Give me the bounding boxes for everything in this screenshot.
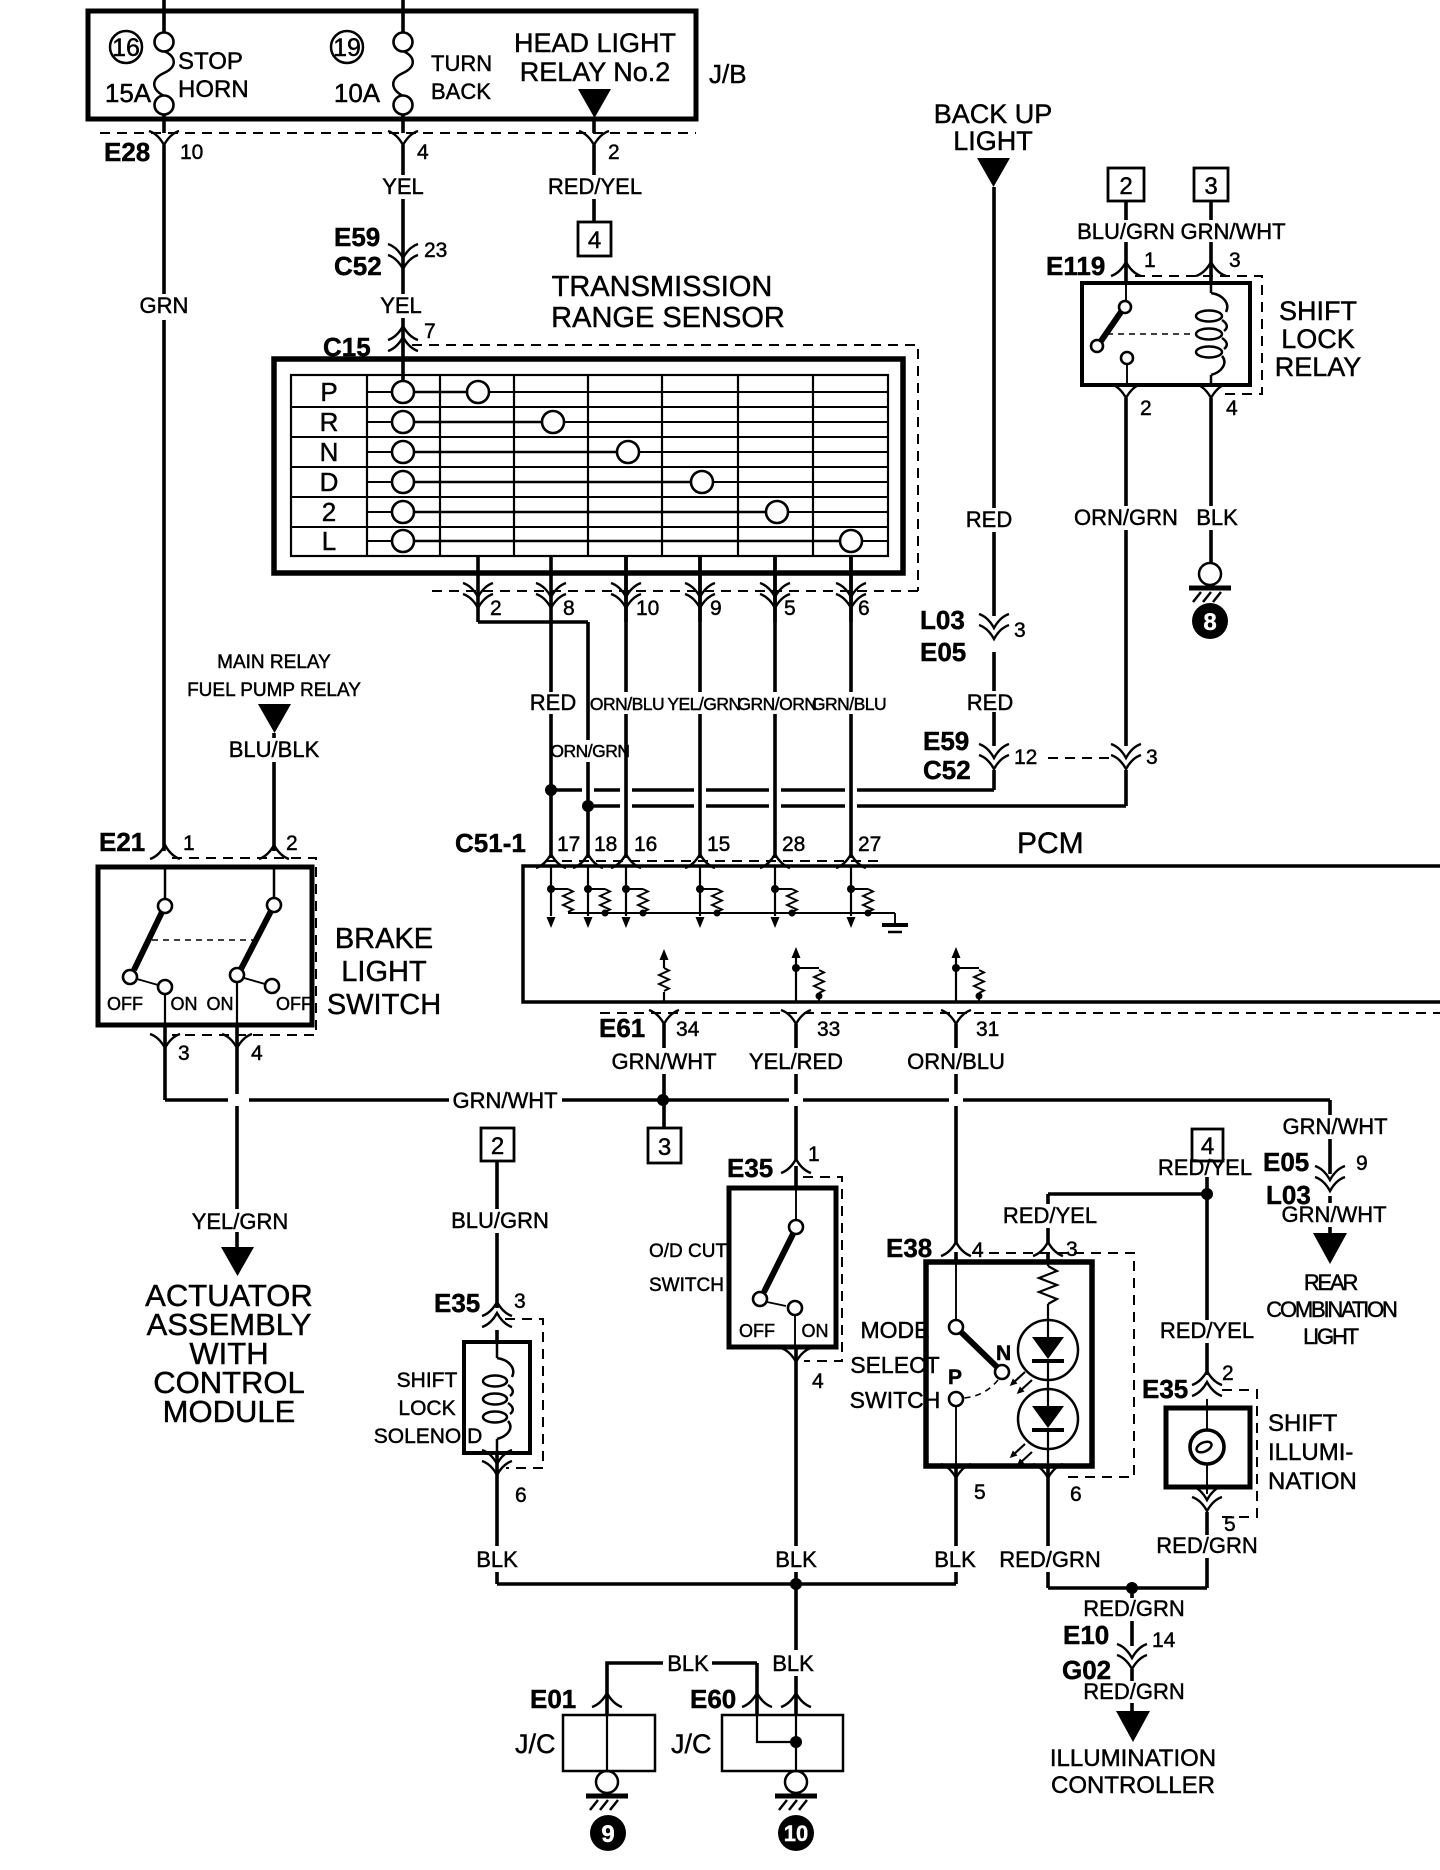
svg-text:1: 1 (183, 832, 195, 855)
svg-text:34: 34 (676, 1018, 700, 1041)
wire BLK from solenoid pin 6 to ground bus (476, 1453, 518, 1584)
ground 10 (775, 1771, 817, 1851)
brake switch pole 1 (stop side) (107, 867, 198, 1025)
svg-text:LIGHT: LIGHT (341, 956, 427, 988)
svg-text:14: 14 (1152, 1629, 1176, 1652)
connector E35 pin 5 (shift illumination) (1192, 1486, 1236, 1536)
wire GRN from E28 pin 10 down to E21 pin 1 (140, 145, 189, 851)
wire RED from back up light to rail (966, 187, 1013, 790)
svg-text:OFF: OFF (276, 994, 312, 1014)
svg-text:2: 2 (1140, 397, 1152, 420)
svg-text:P: P (320, 377, 337, 407)
svg-text:RED/GRN: RED/GRN (999, 1547, 1100, 1572)
svg-text:ON: ON (171, 994, 198, 1014)
svg-text:15: 15 (707, 833, 730, 856)
junction node GRN/WHT bus to 3-box (657, 1094, 669, 1106)
sensor 2 row contacts (392, 501, 788, 523)
svg-text:GRN/WHT: GRN/WHT (611, 1049, 716, 1074)
O/D switch dashed boundary (803, 1177, 842, 1361)
svg-text:RED/YEL: RED/YEL (1158, 1155, 1252, 1180)
svg-text:C52: C52 (334, 251, 382, 281)
svg-text:8: 8 (563, 597, 575, 620)
svg-text:BLU/BLK: BLU/BLK (229, 737, 320, 762)
fuse 16 15A STOP HORN (105, 0, 249, 133)
wire BLK from E38 pin 5 to ground bus (934, 1466, 976, 1584)
svg-text:ON: ON (802, 1321, 829, 1341)
wire BLU/GRN from 2-box to relay pin 1 (1077, 201, 1175, 283)
svg-text:J/B: J/B (709, 59, 747, 89)
svg-text:G02: G02 (1062, 1655, 1111, 1685)
svg-text:3: 3 (514, 1290, 526, 1313)
wire BLU/BLK from relay feed to E21 pin 2 (229, 733, 320, 851)
illumination dashed boundary (1215, 1390, 1257, 1517)
connector E59/C52 pin 3 (orn/grn wire) (1111, 744, 1158, 769)
sensor output pin 8 (536, 556, 575, 622)
svg-text:E35: E35 (1142, 1374, 1188, 1404)
svg-text:C52: C52 (923, 755, 971, 785)
rear combination light (1266, 1233, 1397, 1349)
C51-1 pin 17 (536, 833, 580, 868)
E21 pin 3 (150, 1034, 190, 1065)
svg-text:BLU/GRN: BLU/GRN (1077, 219, 1175, 244)
wire RED sensor pin2 to PCM 17 (478, 622, 576, 858)
svg-text:P: P (948, 1366, 962, 1389)
connector C15 pin 7 (323, 320, 436, 362)
mode select switch box (926, 1262, 1092, 1466)
svg-text:E01: E01 (530, 1684, 576, 1714)
svg-text:SOLENOID: SOLENOID (374, 1425, 483, 1448)
branch wire to E38 pin 3 (1048, 1188, 1213, 1200)
dashed link between E59/C52 pins 12 and 3 (1048, 757, 1114, 759)
svg-text:HORN: HORN (178, 76, 249, 103)
svg-text:4: 4 (1226, 397, 1238, 420)
wire RED/GRN to illumination controller (1083, 1588, 1184, 1711)
link wire BLK to E01 (607, 1651, 757, 1715)
destination box 4 (to shift illumination feed) (578, 222, 611, 256)
svg-text:RED/YEL: RED/YEL (1003, 1203, 1097, 1228)
wire YEL/RED from E61 pin 33 to O/D cut switch (749, 1024, 843, 1188)
svg-text:1: 1 (1144, 249, 1156, 272)
sensor row divider lines (291, 407, 888, 527)
svg-text:3: 3 (1066, 1238, 1078, 1261)
E21 pin 4 (222, 1034, 263, 1065)
svg-text:L03: L03 (1266, 1180, 1311, 1210)
svg-text:3: 3 (1229, 249, 1241, 272)
svg-text:3: 3 (1146, 746, 1158, 769)
sensor output pin 5 (760, 556, 796, 622)
sensor column divider lines (367, 375, 813, 556)
connector C51-1 label (455, 828, 526, 858)
C15 dashed connector boundary around sensor (412, 345, 918, 591)
svg-text:E28: E28 (104, 137, 150, 167)
svg-text:3: 3 (658, 1134, 671, 1161)
svg-text:E38: E38 (886, 1233, 932, 1263)
svg-text:3: 3 (178, 1042, 190, 1065)
svg-text:E35: E35 (434, 1288, 480, 1318)
joint connector E60 box (671, 1715, 843, 1771)
svg-text:E60: E60 (690, 1684, 736, 1714)
svg-text:LOCK: LOCK (398, 1397, 455, 1420)
connector E05/L03 pin 9 (1263, 1147, 1368, 1210)
connector L03/E05 pin 3 (920, 605, 1026, 667)
E21 pin 1 (150, 832, 195, 859)
svg-text:27: 27 (858, 833, 881, 856)
shift illumination lamp (1190, 1399, 1224, 1494)
svg-text:2: 2 (286, 832, 298, 855)
wire GRN/WHT from 3-box to relay pin 3 (1180, 201, 1285, 283)
svg-text:ORN/BLU: ORN/BLU (590, 694, 664, 714)
O/D cut switch labels (649, 1241, 728, 1296)
mode select LED 1 (1010, 1320, 1078, 1406)
wire GRN/WHT from E61 pin 34 to bus (611, 1024, 716, 1128)
svg-text:RED: RED (966, 507, 1012, 532)
GRN/WHT wire to rear combination light (1281, 1100, 1387, 1233)
svg-text:L: L (322, 526, 336, 556)
PCM pull-down network pin 16 (622, 866, 649, 928)
svg-text:33: 33 (817, 1018, 840, 1041)
connector E59/C52 pin 23 (334, 222, 447, 281)
connector E38 pin 3 (1033, 1238, 1078, 1261)
connector E10/G02 pin 14 (1062, 1620, 1176, 1685)
wire BLK from bus to E60 (772, 1584, 814, 1715)
PCM pull-down network pin 18 (584, 866, 611, 928)
crossover rail RED to backup light wire (545, 784, 994, 796)
wire from E21 pin 3 to GRN/WHT bus (163, 1025, 167, 1100)
svg-text:NATION: NATION (1268, 1468, 1357, 1495)
svg-text:2: 2 (608, 141, 620, 164)
mode select switch labels (850, 1317, 941, 1413)
shift lock solenoid box (374, 1342, 530, 1453)
brake light switch box (98, 867, 441, 1025)
fuse 19 10A TURN BACK (331, 0, 492, 133)
sensor output pin 9 (685, 556, 722, 622)
svg-text:2: 2 (322, 497, 336, 527)
BLK ground bus (497, 1578, 956, 1590)
wire BLK from O/D switch pin 4 to ground bus (775, 1347, 817, 1584)
svg-text:4: 4 (417, 141, 429, 164)
svg-text:E61: E61 (599, 1013, 645, 1043)
relay switch contacts (1091, 283, 1133, 385)
svg-text:J/C: J/C (515, 1729, 556, 1759)
destination box 3 (relay switch feed wire) (1194, 168, 1228, 201)
svg-text:BACK: BACK (431, 79, 491, 104)
svg-text:E59: E59 (923, 726, 969, 756)
wire BLK from relay pin 4 to ground 8 (1196, 398, 1238, 563)
svg-text:E59: E59 (334, 222, 380, 252)
svg-text:3: 3 (1204, 173, 1217, 200)
main relay / fuel pump relay feed (187, 652, 361, 733)
svg-text:REAR: REAR (1304, 1270, 1358, 1295)
C51-1 pin 16 (611, 833, 657, 868)
svg-text:GRN: GRN (140, 293, 189, 318)
sensor output pin 2 (463, 556, 502, 622)
svg-text:5: 5 (784, 597, 796, 620)
sensor row labels P R N D 2 L (320, 377, 339, 556)
head light relay No.2 feed (514, 28, 676, 133)
svg-text:RELAY No.2: RELAY No.2 (520, 57, 671, 87)
connector E35 pin 1 (O/D cut switch) (727, 1143, 820, 1183)
svg-text:ILLUMI-: ILLUMI- (1268, 1439, 1353, 1466)
svg-text:BLK: BLK (934, 1547, 976, 1572)
svg-text:TRANSMISSION: TRANSMISSION (552, 271, 773, 303)
svg-text:YEL/GRN: YEL/GRN (192, 1209, 289, 1234)
svg-text:ILLUMINATION: ILLUMINATION (1050, 1745, 1216, 1772)
connector E38 pin 4 (886, 1233, 984, 1263)
sensor N row contacts (392, 441, 639, 463)
svg-text:BLK: BLK (667, 1651, 709, 1676)
svg-text:GRN/ORN: GRN/ORN (737, 694, 816, 714)
svg-text:31: 31 (976, 1018, 999, 1041)
shift lock relay box (1082, 283, 1361, 385)
svg-text:10A: 10A (334, 78, 381, 108)
svg-text:ORN/BLU: ORN/BLU (907, 1049, 1005, 1074)
ground 9 (586, 1771, 628, 1851)
PCM box (523, 827, 1440, 1002)
destination box 4 (from head light relay) (1192, 1129, 1223, 1161)
svg-text:18: 18 (594, 833, 617, 856)
sensor P row contacts (392, 381, 489, 403)
wire RED/YEL from E28 pin 2 to 4-box (548, 145, 642, 222)
wire YEL/GRN from E21 pin 4 to actuator (192, 1025, 289, 1276)
svg-text:4: 4 (588, 227, 601, 254)
svg-text:3: 3 (1014, 619, 1026, 642)
svg-text:19: 19 (333, 34, 361, 62)
svg-text:9: 9 (710, 597, 722, 620)
svg-text:N: N (996, 1342, 1011, 1365)
wire ORN/GRN from relay pin 2 to rail (1074, 398, 1178, 806)
svg-text:4: 4 (972, 1239, 984, 1262)
PCM pull-down network pin 28 (771, 866, 798, 928)
joint connector E01 box (515, 1715, 655, 1771)
E119 dashed connector boundary (1135, 276, 1262, 394)
sensor D row contacts (392, 471, 713, 493)
sensor contact segments (403, 392, 851, 541)
C51-1 pin 15 (685, 833, 730, 868)
svg-text:SWITCH: SWITCH (327, 989, 441, 1021)
sensor R row contacts (392, 411, 564, 433)
PCM output driver pin 34 (659, 949, 669, 1002)
connector E59/C52 pin 12 (923, 726, 1037, 785)
E38 dashed boundary (972, 1253, 1134, 1477)
C51-1 pin 28 (760, 833, 805, 868)
svg-text:5: 5 (974, 1481, 986, 1504)
svg-text:E35: E35 (727, 1153, 773, 1183)
svg-text:MODULE: MODULE (163, 1394, 296, 1429)
connector E38 pin 5 (941, 1464, 986, 1504)
svg-text:GRN/WHT: GRN/WHT (452, 1088, 557, 1113)
svg-text:RED: RED (530, 690, 576, 715)
C51-1 pin 27 (836, 833, 881, 868)
transmission range sensor box (274, 359, 903, 573)
svg-text:2: 2 (490, 597, 502, 620)
shift illumination box (1166, 1408, 1357, 1495)
mode select switch contacts (948, 1262, 1011, 1466)
svg-text:YEL: YEL (382, 174, 424, 199)
svg-text:L03: L03 (920, 605, 965, 635)
svg-text:RED: RED (967, 690, 1013, 715)
illumination controller (1050, 1711, 1216, 1799)
E21 pin 2 (259, 832, 298, 859)
mode select LED 2 (1010, 1389, 1078, 1466)
C51-1 pin 18 (573, 833, 617, 868)
svg-text:HEAD LIGHT: HEAD LIGHT (514, 28, 676, 58)
svg-text:16: 16 (112, 34, 140, 62)
brake switch pole 2 (horn side) (207, 867, 313, 1025)
svg-text:9: 9 (601, 1821, 614, 1848)
svg-text:ORN/GRN: ORN/GRN (550, 741, 629, 761)
svg-text:RANGE SENSOR: RANGE SENSOR (551, 302, 785, 334)
relay coil (1196, 283, 1227, 385)
svg-text:RED/YEL: RED/YEL (1160, 1318, 1254, 1343)
wire YEL/GRN sensor pin9 to PCM 15 (667, 556, 740, 858)
E28 pin 2 (579, 131, 620, 164)
svg-text:6: 6 (858, 597, 870, 620)
svg-text:2: 2 (1119, 173, 1132, 200)
svg-text:CONTROLLER: CONTROLLER (1051, 1772, 1215, 1799)
svg-text:10: 10 (784, 1821, 808, 1846)
svg-text:E05: E05 (920, 637, 966, 667)
RED/GRN bus (1048, 1582, 1207, 1594)
svg-text:28: 28 (782, 833, 805, 856)
svg-text:N: N (320, 437, 339, 467)
svg-text:12: 12 (1014, 746, 1037, 769)
svg-text:C51-1: C51-1 (455, 828, 526, 858)
svg-text:D: D (320, 467, 339, 497)
svg-text:GRN/WHT: GRN/WHT (1180, 219, 1285, 244)
wire ORN/GRN sensor pin8 to PCM 18 (550, 622, 629, 858)
C51-1 dashed boundary (545, 860, 880, 862)
E21 dashed connector boundary (172, 858, 316, 1035)
connector E119 pin 3 (1196, 249, 1241, 276)
wire BLU/GRN from 2-box to solenoid (451, 1161, 549, 1342)
relay mechanical dashed link (1107, 333, 1194, 335)
PCM internal ground rail (568, 913, 908, 932)
svg-text:E119: E119 (1046, 251, 1105, 281)
solenoid dashed connector boundary (505, 1319, 543, 1468)
svg-text:E05: E05 (1263, 1147, 1309, 1177)
wire ORN/BLU from E61 pin 31 to mode select switch (907, 1024, 1005, 1262)
svg-text:BLK: BLK (1196, 505, 1238, 530)
svg-text:16: 16 (634, 833, 657, 856)
svg-text:9: 9 (1356, 1152, 1368, 1175)
GRN/WHT bus wire (165, 1088, 1330, 1113)
connector E35 pin 3 (solenoid) (434, 1288, 526, 1327)
svg-text:BACK UP: BACK UP (934, 99, 1053, 129)
wire RED/GRN from E38 pin 6 to red/grn bus (999, 1466, 1100, 1588)
E61 pin 33 (781, 1010, 840, 1041)
connector E38 pin 6 (1033, 1464, 1082, 1506)
svg-text:8: 8 (1203, 609, 1216, 636)
svg-text:BLK: BLK (775, 1547, 817, 1572)
E119 pin 4 (1196, 384, 1238, 420)
connector E61 dashed boundary (599, 1013, 1440, 1043)
junction block J/B box (88, 11, 747, 119)
wire RED/YEL from junction to E38 pin 3 (1003, 1194, 1097, 1262)
wire RED/YEL from 4-box to junction (1158, 1155, 1252, 1194)
svg-text:7: 7 (424, 320, 436, 343)
svg-text:LIGHT: LIGHT (953, 126, 1033, 156)
svg-text:10: 10 (636, 597, 659, 620)
svg-text:10: 10 (180, 141, 203, 164)
svg-text:PCM: PCM (1017, 827, 1084, 860)
svg-text:COMBINATION: COMBINATION (1266, 1297, 1397, 1322)
back up light feed (934, 99, 1053, 187)
svg-text:4: 4 (251, 1042, 263, 1065)
actuator assembly with control module (145, 1278, 313, 1429)
svg-text:15A: 15A (105, 78, 152, 108)
svg-text:FUEL PUMP RELAY: FUEL PUMP RELAY (187, 680, 361, 701)
svg-text:2: 2 (491, 1133, 504, 1160)
O/D cut switch box (729, 1188, 836, 1347)
svg-text:1: 1 (808, 1143, 820, 1166)
svg-text:MODE: MODE (861, 1317, 930, 1343)
destination box 2 (relay coil feed wire) (1108, 168, 1144, 201)
connector E35 pin 4 (O/D cut switch) (781, 1348, 824, 1393)
svg-text:RED/YEL: RED/YEL (548, 174, 642, 199)
PCM pull-down network pin 27 (847, 866, 874, 928)
sensor row contact lines (367, 392, 888, 541)
svg-text:ON: ON (207, 994, 234, 1014)
svg-text:TURN: TURN (431, 51, 492, 76)
O/D switch contacts (739, 1188, 829, 1347)
svg-text:LOCK: LOCK (1281, 324, 1355, 354)
svg-text:LIGHT: LIGHT (1303, 1324, 1359, 1349)
svg-text:17: 17 (557, 833, 580, 856)
wire YEL from E28 pin 4 to C15 pin 7 (380, 145, 424, 381)
svg-text:BLU/GRN: BLU/GRN (451, 1208, 549, 1233)
connector E60 pins (690, 1684, 811, 1714)
svg-text:BLK: BLK (772, 1651, 814, 1676)
svg-text:OFF: OFF (739, 1321, 775, 1341)
svg-text:BLK: BLK (476, 1547, 518, 1572)
svg-text:E21: E21 (99, 827, 145, 857)
wire RED/YEL down to shift illumination (1160, 1194, 1254, 1375)
svg-text:E10: E10 (1063, 1620, 1109, 1650)
connector E28 dashed boundary (100, 133, 696, 167)
wire GRN/BLU sensor pin6 to PCM 27 (812, 556, 886, 858)
connector E21 label (99, 827, 145, 857)
connector E35 pin 6 (solenoid) (482, 1450, 527, 1507)
sensor output pin 10 (611, 556, 659, 622)
connector E01 pin (530, 1684, 622, 1714)
mode select resistor (1039, 1262, 1057, 1320)
svg-text:YEL: YEL (380, 293, 422, 318)
svg-text:RELAY: RELAY (1275, 352, 1362, 382)
svg-text:J/C: J/C (671, 1729, 712, 1759)
svg-text:RED/GRN: RED/GRN (1083, 1596, 1184, 1621)
destination box 3 (from GRN/WHT bus) (648, 1128, 681, 1163)
connector E119 pin 1 (1046, 249, 1156, 281)
sensor L row contacts (392, 530, 862, 552)
svg-text:2: 2 (1222, 1362, 1234, 1385)
svg-text:SHIFT: SHIFT (397, 1369, 458, 1392)
PCM pull-down network pin 15 (696, 866, 723, 928)
svg-text:6: 6 (515, 1484, 527, 1507)
destination box 2 (to shift lock solenoid) (481, 1128, 514, 1161)
svg-text:SHIFT: SHIFT (1268, 1410, 1338, 1437)
E61 pin 31 (941, 1010, 999, 1041)
svg-text:6: 6 (1070, 1483, 1082, 1506)
svg-text:GRN/WHT: GRN/WHT (1282, 1114, 1387, 1139)
E28 pin 4 (388, 131, 429, 164)
svg-text:MAIN RELAY: MAIN RELAY (217, 652, 331, 673)
svg-text:RED/GRN: RED/GRN (1156, 1533, 1257, 1558)
transmission range sensor title (551, 271, 785, 334)
E61 pin 34 (649, 1010, 700, 1041)
PCM pull-down network pin 17 (547, 866, 574, 928)
svg-text:YEL/RED: YEL/RED (749, 1049, 843, 1074)
svg-text:BRAKE: BRAKE (335, 923, 433, 955)
